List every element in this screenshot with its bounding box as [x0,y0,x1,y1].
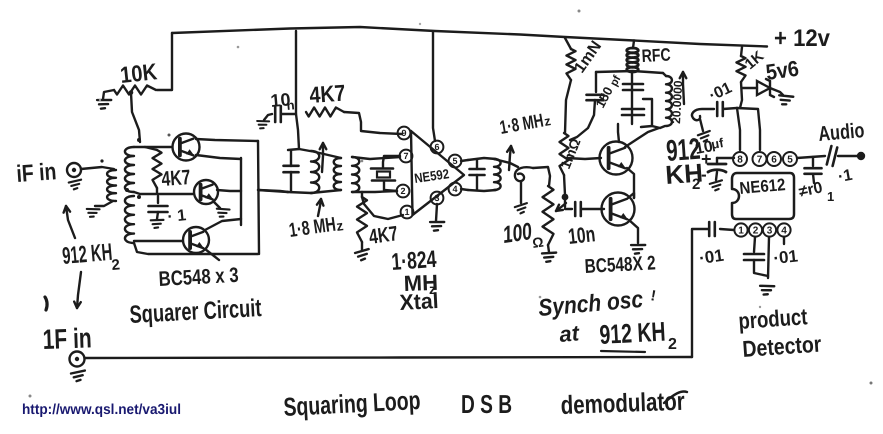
wire osc left branch [595,72,597,92]
wire Q4 collector up [618,124,619,142]
wire xfmr2 bottom to pin [352,191,397,192]
wire .01 to junction [723,108,737,109]
svg-text:Detector: Detector [742,331,823,362]
svg-text:5: 5 [787,155,793,166]
svg-text:2: 2 [692,176,700,193]
connector 1F in jack [70,352,85,367]
inductor tank2 coil [494,159,501,190]
wire pin1 to cap [720,229,734,230]
wire hook to 100R [533,167,550,186]
svg-text:1F in: 1F in [42,322,92,355]
speck marks [99,99,101,101]
pin 4 opamp [449,183,462,196]
wire 4K7 ground lead [361,242,363,250]
node osc junction [562,194,569,201]
wire pin3 ground lead [436,204,437,221]
inductor RFC [627,48,633,72]
wire Q1 collector to bus [196,139,258,141]
svg-text:http://www.qsl.net/va3iul: http://www.qsl.net/va3iul [22,402,181,418]
svg-text:Ω: Ω [531,234,544,251]
wire transformer center tap [134,192,193,194]
svg-text:2: 2 [668,336,677,353]
pin 9 opamp [398,127,411,140]
svg-text:8: 8 [737,155,743,166]
op-amp U1 NE592 triangle [411,131,464,215]
svg-text:912 KH: 912 KH [61,239,113,270]
pin 1 NE612 [734,223,747,236]
transistor Q2 squarer [194,180,218,204]
wire 4K7 mid right to opamp [344,112,402,134]
wire Q1 emitter to bus [196,155,241,159]
wire 10n ground lead [264,114,272,120]
wire pin4 stub [783,237,785,244]
wire RFC top [633,41,634,49]
wire zener branch [742,87,757,89]
resistor 10K pot [114,86,156,95]
inductor transformer secondary [125,196,134,243]
transistor Q1 squarer [173,134,200,161]
svg-text:Audio: Audio [817,119,865,146]
inductor transformer primary [125,147,134,192]
wire junction to cap [565,208,572,210]
pin 6 NE612 [767,152,781,166]
pin 7 NE612 [753,152,767,166]
wire tank2 top [468,158,496,160]
arrow tank1 [322,143,323,172]
svg-text:10K: 10K [119,58,159,88]
svg-text:4K7: 4K7 [161,166,192,191]
pin 1 opamp [401,206,414,219]
wire underline 912 [601,351,645,352]
wire pin5 audio [797,156,825,158]
IC U2 NE612 body [732,173,794,219]
svg-text:1: 1 [738,226,744,237]
diode zener 5v6 [757,81,770,95]
svg-text:4: 4 [781,226,787,237]
ground iF in jack [69,180,82,190]
inductor 1mH choke2 [560,133,569,175]
capacitor .01 p2 [744,253,764,256]
capacitor 10uF electrolytic [708,163,726,166]
svg-text:100: 100 [501,218,534,249]
svg-text:7: 7 [403,151,408,161]
arrow pot wiper [556,203,566,211]
wire transformer bottom lead [134,243,258,254]
pin 6 opamp [431,141,444,154]
transistor Q3 squarer [183,227,209,253]
svg-text:2: 2 [753,226,759,237]
wire audio out [838,155,858,157]
wire Q2 collector [217,190,241,191]
wire Q2 emitter to ground [214,202,220,208]
wire junction to pin7 [737,108,760,150]
svg-text:2: 2 [111,256,121,274]
wire rail drop mid [296,31,299,149]
inductor input coil L1 [107,170,116,201]
capacitor .01 coupling [716,102,719,116]
wire 10K wiper to transformer [131,93,140,142]
ground 100R [541,251,556,262]
svg-text:9: 9 [401,128,406,138]
svg-text:RFC: RFC [641,45,671,66]
capacitor tank2 [470,168,485,171]
resistor 4K7 mid [306,108,344,117]
svg-text:·1: ·1 [837,167,854,186]
wire 10n to junction [281,113,296,115]
wire pin5 to tank2 [461,160,468,161]
wire 150p down [570,100,595,140]
capacitor osc c3 [622,108,644,111]
wire jack to coil [81,167,114,169]
ground pins23 [759,284,775,296]
resistor 100R pot [543,186,554,245]
wire Q1 base [567,158,601,159]
wire pin2 down [754,237,755,252]
wire transformer top to T1 base [134,146,172,148]
ground input coil [86,207,100,218]
wire 10K left lead [103,90,114,99]
ground 1F in jack [71,371,86,382]
arrow 1.8MHz out [509,146,511,170]
ground Q5 emitter [630,243,645,255]
wire choke top [565,38,571,49]
wire xfmr2 link [311,151,341,158]
wire choke2 to junction [564,175,565,195]
pin 2 NE612 [749,223,762,236]
wire coil bottom to ground [95,201,113,206]
wire collector bus A [240,158,242,225]
svg-text:D S B: D S B [461,389,512,419]
ground cap .1 [150,219,163,229]
arrow 1.8MHz small [318,199,321,216]
arrow osc [683,72,684,104]
node transformer dots [137,138,141,142]
svg-text:912 KH: 912 KH [599,317,666,350]
ground 4K7 opamp [355,249,370,261]
wire 4K7 opamp top [361,192,363,197]
wire Q3 base [134,240,182,242]
wire audio shunt lead [812,157,814,166]
wire Q3 collector to bus [205,219,241,230]
svg-text:7: 7 [757,155,763,166]
pin 4 NE612 [777,223,790,236]
svg-text:5v6: 5v6 [764,56,800,85]
connector iF in jack [67,163,81,177]
capacitor 10n osc [574,202,577,216]
svg-text:4K7: 4K7 [367,222,399,249]
wire tank1 top [288,149,310,151]
svg-text:1: 1 [827,189,834,204]
wire hook2 [692,109,714,120]
svg-text:NE612: NE612 [739,175,786,198]
wire rail drop 1K [741,47,742,56]
wire osc right box [641,99,652,127]
wire bottom feedback rail [85,357,693,358]
wire zener to ground [770,88,783,95]
wire shunt bottom [813,174,814,183]
wire Q3 emitter [205,249,219,260]
ground 10K [96,98,111,110]
wire hook loop [515,167,533,181]
pin 7 opamp [400,150,413,163]
wire crystal bottom loop [384,181,397,191]
svg-text:·01: ·01 [772,247,798,268]
wire Q4 emitter down [627,168,634,198]
inductor xfmr2 primary [334,158,341,190]
svg-text:· 1: · 1 [167,207,187,226]
wire xfmr2 top to pin [352,157,400,159]
arrow down to 1F in [77,272,81,308]
svg-text:3: 3 [434,193,439,203]
svg-text:4: 4 [452,184,457,194]
svg-text:10n: 10n [567,221,596,249]
inductor xfmr2 secondary [352,157,359,192]
capacitor 10n mid [274,106,277,122]
wire cap .1 top lead [157,196,159,203]
capacitor audio series [827,146,837,166]
wire squarer output [258,190,288,192]
ground zener [777,93,793,106]
wire left rail drop to 10K [157,33,172,90]
wire junction to pin8 [737,108,740,150]
capacitor 150p [587,94,604,97]
transistor Q4 osc [600,142,633,175]
svg-text:n: n [286,97,295,113]
ground 10uF [710,180,724,191]
wire Q4 collector diag [625,128,659,147]
wire top +12V rail [172,27,767,47]
svg-text:demodulator: demodulator [560,386,685,420]
resistor 4K7 squarer [153,150,162,188]
ground pin3 [429,220,444,232]
ground Q2 emitter [215,207,229,218]
wire Q5 emitter [629,220,638,243]
wire fb down [692,229,709,357]
wire collector bus B [258,141,259,254]
capacitor osc c2 [623,83,643,86]
svg-text:6: 6 [771,155,777,166]
wire Q5 collector [628,193,634,198]
node 10K wiper dot [129,90,134,95]
svg-text:1: 1 [404,207,409,217]
wire rail drop to pin6 [433,32,435,141]
svg-text:3: 3 [767,226,773,237]
wire tank2 bottom [468,190,496,191]
wire tank1 bottom [288,192,311,193]
transistor Q5 osc [602,193,635,226]
svg-text:Xtal: Xtal [399,288,439,315]
wire osc horiz [596,71,663,73]
wire pin3 down [768,237,769,278]
wire pin4 to tank2 [461,189,468,190]
ground 10n [256,119,269,129]
wire box to coil [652,126,665,128]
wire demod flourish [664,391,687,403]
ground hook [514,203,528,214]
wire cap .1 bottom lead [157,212,158,219]
node audio dot [857,152,865,160]
wire 10uF ground lead [716,172,717,180]
svg-text:BC548X 2: BC548X 2 [584,252,656,278]
wire hook down [520,182,522,203]
pin 2 opamp [397,185,410,198]
pin 5 NE612 [783,152,797,166]
svg-text:4K7: 4K7 [309,80,347,108]
wire 4K7 top [145,147,157,150]
svg-text:+ 12v: + 12v [774,25,831,52]
wire coil top [663,73,666,76]
pin 5 opamp [449,155,462,168]
svg-text:product: product [738,303,809,334]
wire RFC down [631,72,633,124]
mark tick [45,297,47,310]
wire 100R ground lead [548,245,549,252]
wire crystal top loop [383,156,400,168]
svg-text:6: 6 [434,142,439,152]
wire tank1 bottom to squarer [258,190,288,192]
pin 8 NE612 [733,152,747,166]
wire p2 cap down [754,260,768,276]
wire 1K to zener junction [740,82,742,108]
wire cap to Q2 base [581,208,604,210]
svg-text:iF in: iF in [16,158,58,188]
wire junction down [564,197,566,207]
crystal X1 [371,167,393,170]
inductor 20mH coil [666,76,672,126]
capacitor audio shunt [805,167,822,170]
resistor 4K7 opamp [357,197,367,242]
capacitor .01 fb [708,222,711,236]
svg-text:5: 5 [452,156,457,166]
resistor 1K [737,56,746,82]
capacitor .1 [149,205,168,208]
wire pin1 to bias [362,197,403,219]
wire choke down [565,80,571,133]
arrow to jack [66,206,75,238]
pin 3 opamp [431,192,444,205]
ground hook2 [697,131,711,142]
wire tank2 to hook [494,159,518,167]
svg-text:2: 2 [400,186,405,196]
capacitor tank1 [284,165,299,168]
svg-text:·01: ·01 [698,246,725,268]
svg-text:BC548 x 3: BC548 x 3 [158,264,239,291]
wire 4K7 bottom [156,188,158,193]
inductor tank1 coil [311,151,319,193]
inductor 1mH choke [567,49,576,80]
pin 3 NE612 [763,223,776,236]
